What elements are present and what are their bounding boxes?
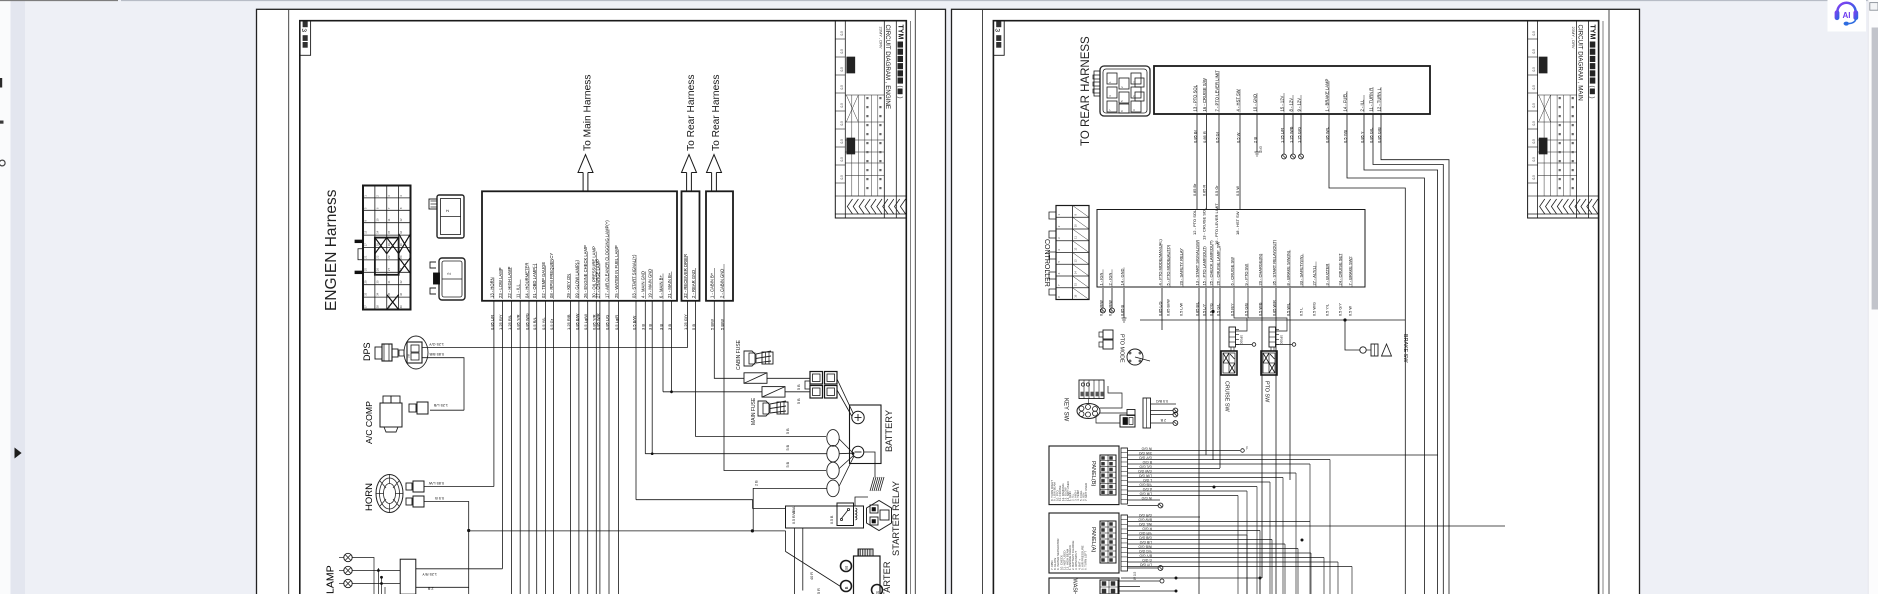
svg-text:HORN: HORN [364,483,375,511]
svg-text:20 - SAFETY RELAY: 20 - SAFETY RELAY [1178,248,1183,286]
svg-text:0.5: 0.5 [840,49,844,54]
sensor DPS [362,336,428,369]
svg-text:22: 22 [375,255,379,259]
svg-text:To Rear Harness: To Rear Harness [686,75,697,151]
svg-text:B/W G/O: B/W G/O [1138,517,1152,521]
svg-text:26 - ENGINE CHECK LAMP: 26 - ENGINE CHECK LAMP [583,245,588,298]
svg-text:5 R: 5 R [817,588,821,594]
svg-text:25: 25 [363,268,367,272]
svg-text:Y/G G/O: Y/G G/O [1139,549,1152,553]
wire relay block to battery plus [837,379,854,414]
connector CN5 controller [1049,206,1089,300]
connector block B1 to main harness [482,191,677,300]
svg-text:03 - START SIGNAL(+): 03 - START SIGNAL(+) [631,254,636,298]
svg-text:9 - 12V: 9 - 12V [1296,98,1301,112]
svg-text:0.5 W/G: 0.5 W/G [1312,302,1316,316]
svg-text:7 - BRAKE SW2: 7 - BRAKE SW2 [1347,256,1352,286]
wire DPS b to AC comp [422,358,464,411]
panel B legend [1050,480,1088,501]
wire ctl check lamp down [1212,288,1214,310]
svg-text:L/B G/O: L/B G/O [1139,540,1152,544]
page 1 drawing frame [300,21,907,594]
wire R1 pto lever limit [1218,114,1220,210]
svg-text:34: 34 [375,292,379,296]
svg-text:11 - TURN R: 11 - TURN R [1368,88,1373,112]
svg-text:2 B: 2 B [427,587,433,591]
svg-text:A G/O: A G/O [1142,487,1152,491]
svg-text:12: 12 [399,218,403,222]
svg-text:5P090: 5P090 [1279,335,1283,344]
svg-text:5 B: 5 B [797,398,801,404]
wire ctl start sig down [1198,288,1200,594]
connector CN1 engine harness grid [355,186,411,310]
svg-text:4 - HST SW: 4 - HST SW [1235,89,1240,111]
svg-text:10: 10 [375,218,379,222]
wire to battery ring 4 from junction [753,488,827,531]
svg-text:1 - BRAKE LAMP: 1 - BRAKE LAMP [1324,78,1329,111]
svg-text:0.5: 0.5 [1532,49,1536,54]
svg-text:6. TURN LEFT: 6. TURN LEFT [1084,551,1088,570]
svg-text:28: 28 [399,268,403,272]
panel B box [1049,446,1119,505]
svg-text:40: 40 [399,305,403,309]
nested wire bends bottom page2 [1238,460,1330,594]
scrollbar track [1868,0,1878,594]
svg-text:17: 17 [363,243,367,247]
panel A long wire to right [1128,525,1506,527]
svg-text:8 - 12V: 8 - 12V [1288,98,1293,112]
B1 wire gauge labels [489,313,672,330]
svg-text:0.5 B: 0.5 B [435,496,444,500]
svg-text:13 - PTO SOL: 13 - PTO SOL [1192,84,1197,111]
svg-text:B G/O: B G/O [1142,460,1152,464]
washer box partial [1049,578,1119,594]
sidebar cut-off glyph 1 [0,78,2,88]
svg-text:CRUISE SW: CRUISE SW [1224,381,1230,412]
svg-text:(: ( [896,86,902,88]
page 1 fold line a [910,21,912,594]
svg-text:40 R: 40 R [810,572,814,580]
left sidebar shaded band [11,0,26,594]
controller top pin labels [1192,183,1240,245]
washer wires [1118,571,1178,592]
connector block B2 to rear harness [682,191,700,300]
svg-text:26 - CRUISE LAMP_SW: 26 - CRUISE LAMP_SW [1215,241,1220,285]
svg-text:24: 24 [399,255,403,259]
svg-text:11: 11 [1074,236,1078,239]
wire B2 pin2 rear gnd to battery ring 1 [696,301,827,436]
fuse F2 [762,387,785,398]
horn HORN [364,475,424,513]
top chrome divider line [0,0,1878,2]
svg-text:0.5: 0.5 [1532,175,1536,180]
svg-text:6 - MAIN B+: 6 - MAIN B+ [658,275,663,298]
wire HORN b [424,502,469,594]
svg-text:1 - IGN: 1 - IGN [1098,272,1103,285]
svg-text:To Rear Harness: To Rear Harness [711,75,722,151]
wire R1 turn l to rail [1381,114,1449,594]
svg-text:L/Y G/O: L/Y G/O [1139,562,1152,566]
svg-text:0.5 W: 0.5 W [1348,306,1352,316]
svg-text:16 - CRUISE S/W: 16 - CRUISE S/W [1202,78,1207,111]
wire R1 ill to rail [1364,114,1438,594]
compressor AC COMP [364,396,428,444]
wire bundle from B1 [494,301,672,594]
svg-text:5 B: 5 B [786,428,790,434]
svg-text:27 - ALT(L): 27 - ALT(L) [1311,265,1316,285]
battery ring terminals [827,430,855,497]
relay bottom pin wire a [794,528,796,594]
svg-text:5P090: 5P090 [1239,335,1243,344]
wire R1 gnd with terminal [1256,114,1258,152]
svg-text:08: 08 [407,354,411,358]
sheet page 1 [257,9,946,594]
wire R1 brake lamp to rail [1329,114,1405,594]
svg-text:30A: 30A [792,506,796,513]
scrollbar up button [1870,3,1878,11]
svg-text:2 B: 2 B [755,480,759,486]
svg-text:M: M [844,566,849,570]
svg-text:0.5: 0.5 [1532,103,1536,108]
svg-text:0.85 R: 0.85 R [1203,185,1207,196]
wire panel B row1 terminal [1241,449,1245,453]
svg-text:PANEL(B): PANEL(B) [1090,461,1096,487]
wire ctl brake down [1289,288,1291,480]
fuse F1 [744,373,767,384]
panel A box [1049,513,1119,573]
svg-text:13 - HORN: 13 - HORN [489,277,494,298]
svg-text:21 - MAIN B+: 21 - MAIN B+ [667,272,672,298]
svg-text:18 - HST SW: 18 - HST SW [1235,211,1240,235]
svg-text:14: 14 [1074,271,1078,275]
svg-text:13: 13 [363,230,367,234]
svg-text:0.85 L/W: 0.85 L/W [428,481,444,485]
svg-text:1.25 R/Y: 1.25 R/Y [422,572,437,576]
wire start signal to relay coil [636,500,786,509]
svg-text:2 B: 2 B [1160,418,1166,422]
relay block 2x2 [805,372,837,399]
svg-text:2 - IGN: 2 - IGN [1107,272,1112,285]
svg-text:12. HIGH BEAM: 12. HIGH BEAM [1066,548,1070,570]
svg-text:CIRCUIT DIAGRAM , MAIN: CIRCUIT DIAGRAM , MAIN [1576,25,1583,101]
svg-text:15 - 12V: 15 - 12V [1279,95,1284,111]
svg-text:G/W G/O: G/W G/O [1138,469,1152,473]
sidebar cut-off glyph 3 [0,160,5,166]
svg-text:14. NOT USED: 14. NOT USED [1066,481,1070,501]
svg-text:27: 27 [387,268,391,272]
svg-text:3: 3 [994,28,1001,32]
svg-text:35 - START RELAY(OUT): 35 - START RELAY(OUT) [1271,239,1276,285]
page 1 fold line b [914,10,916,594]
svg-text:ILL: ILL [1245,446,1249,451]
panel B connector grid [1100,455,1116,495]
B2 pin labels [683,254,696,330]
svg-text:G G/O: G G/O [1142,558,1152,562]
svg-text:0.5 L/W: 0.5 L/W [1179,303,1183,316]
svg-text:4 - PTO MODE(MANUAL): 4 - PTO MODE(MANUAL) [1157,238,1162,285]
svg-text:5 B: 5 B [786,444,790,450]
svg-text:6 - CRUISE SW: 6 - CRUISE SW [1229,257,1234,286]
svg-text:19: 19 [387,243,391,247]
svg-text:To Main Harness: To Main Harness [583,75,594,151]
svg-text:33 - SAFETY(IN): 33 - SAFETY(IN) [1298,255,1303,286]
svg-text:L G/O: L G/O [1143,478,1152,482]
svg-text:5 B: 5 B [786,461,790,467]
scrollbar thumb [1872,28,1878,310]
wire ctl start relay down [1275,288,1277,594]
panel A terminal strip and wires [1121,515,1505,571]
svg-text:25 - CHECK LAMP(OUT): 25 - CHECK LAMP(OUT) [1208,240,1213,286]
svg-text:): ) [1589,97,1595,99]
svg-text:31: 31 [387,280,391,284]
svg-text:15: 15 [387,230,391,234]
svg-text:0.5: 0.5 [1532,157,1536,162]
wire R1 12v c [1300,114,1302,154]
svg-text:0.5 Y/L: 0.5 Y/L [1325,304,1329,316]
svg-text:11: 11 [387,218,391,221]
wire to battery ring 2 [645,453,827,455]
wire fuse1 to relay block [767,377,810,379]
connector CN2 [429,195,464,238]
svg-text:ENGIEN Harness: ENGIEN Harness [323,189,340,311]
svg-text:0.5: 0.5 [1532,31,1536,36]
svg-text:29: 29 [363,280,367,284]
controller box [1097,210,1365,288]
svg-text:01 - OBD LAMP(-): 01 - OBD LAMP(-) [532,263,537,298]
svg-text:38: 38 [375,305,379,309]
title block page 1 [835,21,906,218]
svg-text:27 - CHARGE LAMP: 27 - CHARGE LAMP [595,259,600,298]
controller pin labels [1098,238,1352,316]
svg-text:7 - PTO LEVER LIMIT: 7 - PTO LEVER LIMIT [1214,70,1219,112]
svg-text:L/R G/O: L/R G/O [1139,491,1152,495]
svg-text:3 - BUZZER: 3 - BUZZER [1324,264,1329,286]
svg-text:0.5 B: 0.5 B [830,515,834,524]
svg-text:15: 15 [1074,282,1078,286]
svg-text:0.5 W: 0.5 W [1236,186,1240,196]
svg-text:MAIN FUSE: MAIN FUSE [751,397,757,425]
connector block B3 to rear harness [706,191,733,300]
battery [850,405,895,464]
svg-text:0.5 Gr: 0.5 Gr [1215,185,1219,196]
long wire to starter [469,530,786,532]
panel B terminal strip and wires [1121,448,1438,504]
key switch terminal strip [1143,398,1178,428]
svg-text:): ) [896,97,902,99]
svg-text:5 - PTO MODE(AUTO): 5 - PTO MODE(AUTO) [1165,244,1170,285]
svg-text:15 - PTO LAMP(OUT): 15 - PTO LAMP(OUT) [1201,246,1206,286]
svg-text:23: 23 [387,255,391,259]
title block page 2 [1528,21,1599,218]
wire B2 pin32 receiver drier to DPS [422,301,687,348]
connector CN3 [430,258,465,300]
svg-text:14 - FUEL: 14 - FUEL [1342,92,1347,112]
svg-text:STARTER RELAY: STARTER RELAY [891,481,901,556]
svg-text:16: 16 [1074,294,1078,298]
svg-text:Y/B G/O: Y/B G/O [1139,482,1152,486]
svg-text:0.5 B/G: 0.5 B/G [1156,399,1168,403]
wire diagonal to starter B [786,531,841,587]
arrow To Rear Harness 2 [707,75,723,191]
panel A connector grid [1100,521,1116,563]
svg-text:23MY , DRV: 23MY , DRV [879,27,884,49]
starter relay connector [867,501,892,531]
svg-text:11 - ILL: 11 - ILL [516,283,521,298]
svg-text:STARTER: STARTER [882,561,892,594]
junction horn/lamp [467,529,470,532]
svg-text:BRAKE SW: BRAKE SW [1402,334,1408,363]
svg-text:0.5: 0.5 [840,103,844,108]
page 2 fold line b [1608,10,1610,594]
svg-text:0.5: 0.5 [1532,67,1536,72]
wire R1 12v b [1292,114,1294,154]
svg-text:02 - TEMP GAUGE: 02 - TEMP GAUGE [541,262,546,298]
wire B3 pin2 cabin gnd to battery ring 3 [724,301,826,471]
svg-text:20: 20 [399,243,403,247]
page 2 fold line a [1602,21,1604,594]
svg-text:23MY , DRV: 23MY , DRV [1571,27,1576,49]
svg-text:32 - RECEIVER DRIER: 32 - RECEIVER DRIER [683,254,688,298]
svg-text:A/C COMP: A/C COMP [364,401,374,444]
svg-text:0.5 G/Y: 0.5 G/Y [1338,303,1342,316]
sheet page 2 [952,9,1640,594]
wire R1 pto sol [1196,114,1198,210]
svg-text:13 - CRUISE SOL: 13 - CRUISE SOL [1202,207,1207,240]
svg-text:W G/O: W G/O [1141,496,1152,500]
wire AC COMP [430,409,464,411]
svg-text:12 - TURN L: 12 - TURN L [1376,87,1381,111]
lamps LAMP [325,553,503,594]
sidebar cut-off glyph 2 [0,121,4,124]
wire R1 12v a [1283,114,1285,154]
svg-text:(: ( [1589,86,1595,88]
wire fuse2 to relay block [785,391,810,393]
pto switch [1248,288,1296,403]
svg-text:37: 37 [363,305,367,309]
svg-text:4 - MAIN GND: 4 - MAIN GND [641,271,646,298]
brake switch [1345,320,1408,363]
svg-text:39: 39 [387,305,391,309]
svg-text:09 - GLOW LAMP(-): 09 - GLOW LAMP(-) [574,259,579,298]
wire brake to rail [1345,320,1360,350]
svg-text:TO REAR HARNESS: TO REAR HARNESS [1080,36,1092,146]
starter motor [841,549,893,594]
left sidebar white strip [0,0,11,594]
svg-text:2 - REAR GND: 2 - REAR GND [691,270,696,298]
svg-text:35: 35 [387,292,391,296]
panel A wire labels [1138,513,1152,567]
svg-text:14 - GND: 14 - GND [1119,268,1124,285]
starter relay [786,481,902,556]
arrow To Rear Harness 1 [682,75,698,191]
svg-text:CIRCUIT DIAGRAM , ENGINE: CIRCUIT DIAGRAM , ENGINE [884,25,891,109]
svg-text:20 - CHARGE(IN): 20 - CHARGE(IN) [1257,253,1262,285]
svg-text:7. NOT USED: 7. NOT USED [1084,483,1088,501]
ground symbol battery [870,477,884,491]
svg-text:26: 26 [375,268,379,272]
panel A legend [1050,539,1088,570]
svg-text:13 - START SIGNAL(SW): 13 - START SIGNAL(SW) [1194,239,1199,285]
svg-text:33: 33 [363,292,367,296]
svg-text:29 - KEY ON: 29 - KEY ON [566,274,571,298]
svg-text:PTO SW: PTO SW [1264,381,1270,403]
svg-text:W/L G/O: W/L G/O [1139,522,1152,526]
svg-text:CABIN FUSE: CABIN FUSE [736,339,742,370]
svg-text:22 - HIGH LAMP: 22 - HIGH LAMP [507,266,512,298]
svg-text:Y/R G/O: Y/R G/O [1139,531,1152,535]
svg-text:5 B: 5 B [797,384,801,390]
svg-text:G/R G/O: G/R G/O [1138,513,1152,517]
svg-text:0.5 L: 0.5 L [1299,308,1303,316]
svg-text:W/B G/O: W/B G/O [1138,544,1152,548]
svg-text:0.5: 0.5 [840,157,844,162]
svg-text:0.5: 0.5 [1532,85,1536,90]
B3 pin labels [710,264,725,330]
svg-text:0.5: 0.5 [840,31,844,36]
wire R1 turn r to rail [1373,114,1443,594]
svg-text:25 - WATER IN FUEL LAMP: 25 - WATER IN FUEL LAMP [614,245,619,298]
battery ground wire [864,452,875,477]
B1 pin labels [489,220,672,299]
svg-text:0.5: 0.5 [1532,121,1536,126]
panel B gnd terminal [1158,503,1163,508]
svg-text:TYM: TYM [896,25,903,40]
arrow To Main Harness [578,75,594,191]
wire R1 hst sw [1239,114,1241,210]
svg-text:TYM: TYM [1589,25,1596,40]
relay bottom pin wire b [802,528,804,591]
svg-text:3/W G/O: 3/W G/O [1138,451,1152,455]
svg-text:24 - CRUISE SET: 24 - CRUISE SET [1337,253,1342,286]
relay ground wire [855,497,868,506]
nested wire bends panel A [1247,531,1352,594]
wire 12v rail horizontal [1140,319,1405,321]
svg-text:19 - MAIN GND: 19 - MAIN GND [648,269,653,298]
junction dots page2 [1175,486,1304,580]
AI assistant button box [1828,0,1867,32]
svg-text:0.5: 0.5 [1532,139,1536,144]
svg-text:1 - CABIN B+: 1 - CABIN B+ [710,272,715,298]
svg-text:23 - LOW LAMP: 23 - LOW LAMP [498,267,503,298]
svg-text:AI: AI [1843,11,1851,20]
panel B wire labels [1138,446,1152,500]
wire HORN a [424,486,494,488]
svg-text:0.5: 0.5 [840,85,844,90]
svg-text:30: 30 [375,280,379,284]
svg-text:WASHER: WASHER [1072,579,1078,594]
page 1 margin line [288,10,290,594]
horizontal bottom wires page2 [995,578,1260,594]
svg-text:0.85 B/B: 0.85 B/B [429,352,444,356]
svg-text:08 - RPM FREQUENCY: 08 - RPM FREQUENCY [549,253,554,298]
controller gnd wires with terminals [1101,288,1127,322]
svg-text:2 - ILL: 2 - ILL [1359,99,1364,112]
svg-text:W G/O: W G/O [1141,446,1152,450]
svg-text:G/Y G/O: G/Y G/O [1139,455,1152,459]
svg-text:PTO MODE: PTO MODE [1119,334,1125,363]
page 2 projection symbol box [993,21,1004,56]
svg-text:B/Y G/O: B/Y G/O [1139,553,1152,557]
connector CN4 rear harness [1093,66,1150,116]
svg-text:36: 36 [399,292,403,296]
svg-text:21: 21 [363,255,367,259]
svg-text:B: B [844,586,849,589]
sidebar expand triangle [15,448,22,459]
svg-text:18: 18 [375,243,379,247]
svg-text:W 0.5: W 0.5 [1133,571,1137,580]
svg-text:10 - GND: 10 - GND [1252,94,1257,112]
svg-text:0.85 Br/W: 0.85 Br/W [1166,299,1170,316]
